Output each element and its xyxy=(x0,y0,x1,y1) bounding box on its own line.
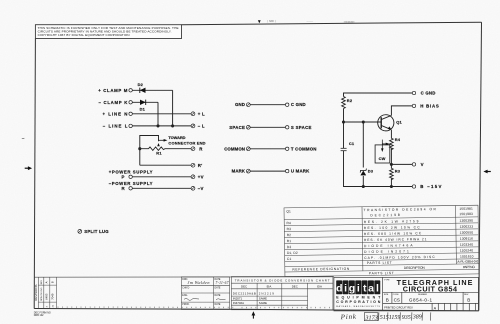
svg-text:CODE: CODE xyxy=(393,294,400,296)
revisions block xyxy=(38,277,56,308)
svg-text:3173: 3173 xyxy=(364,314,377,321)
svg-text:REV.: REV. xyxy=(464,294,469,296)
svg-text:1103340: 1103340 xyxy=(460,243,473,247)
terminal P (+POWER SUPPLY) xyxy=(109,170,153,180)
signature block grid xyxy=(181,277,229,310)
svg-text:| N3R |: | N3R | xyxy=(267,20,276,23)
wire left rail R2 to C1 xyxy=(342,109,345,149)
svg-text:R2: R2 xyxy=(287,233,292,237)
svg-text:DEC2219A&B: DEC2219A&B xyxy=(233,292,256,296)
terminal L (-LINE) xyxy=(103,123,133,128)
node S SPACE xyxy=(286,125,312,130)
company name xyxy=(336,296,381,309)
svg-text:935: 935 xyxy=(402,315,411,321)
capacitor C1 xyxy=(341,141,355,151)
svg-text:Q1: Q1 xyxy=(286,210,291,214)
svg-text:1001610: 1001610 xyxy=(460,254,474,258)
svg-text:a: a xyxy=(368,283,374,295)
wire SPACE to S SPACE xyxy=(250,126,285,128)
node H BIAS xyxy=(412,103,439,108)
printed circuit rev row xyxy=(384,306,437,311)
SECTION: middle column xyxy=(224,102,316,173)
svg-text:IN2071: IN2071 xyxy=(233,296,243,300)
SECTION: title block xyxy=(334,277,479,321)
SECTION: parts table xyxy=(284,205,479,276)
svg-text:G854-0-1: G854-0-1 xyxy=(409,298,433,303)
svg-text:PART NO.: PART NO. xyxy=(463,265,476,269)
svg-text:–V: –V xyxy=(198,186,204,191)
svg-text:R′: R′ xyxy=(198,163,203,168)
terminal M (+CLAMP) xyxy=(98,88,132,93)
svg-text:SAME: SAME xyxy=(259,301,267,305)
svg-text:+V: +V xyxy=(198,174,204,179)
sheet top border xyxy=(182,22,482,25)
svg-text:R2: R2 xyxy=(347,98,353,103)
wire R to -V xyxy=(132,187,191,189)
svg-text:Q1: Q1 xyxy=(396,120,402,125)
node COMMON xyxy=(224,146,250,151)
left margin dash xyxy=(22,137,25,139)
svg-text:SPLIT LUG: SPLIT LUG xyxy=(84,229,109,234)
svg-text:– L: – L xyxy=(198,124,205,129)
drawing title xyxy=(384,278,473,294)
svg-text:Pink: Pink xyxy=(340,313,357,322)
svg-text:R4: R4 xyxy=(286,221,291,225)
svg-text:1501983: 1501983 xyxy=(459,212,473,216)
svg-text:IN4746A: IN4746A xyxy=(233,301,244,305)
svg-text:P: P xyxy=(122,174,125,179)
node GND xyxy=(235,102,250,107)
node SPACE xyxy=(229,125,250,130)
svg-text:CIRCUIT G854: CIRCUIT G854 xyxy=(403,285,457,294)
title block grid xyxy=(334,277,479,311)
node MARK xyxy=(232,169,251,174)
svg-text:DEC: DEC xyxy=(292,284,298,288)
svg-text:RES. 100 2W 10% CC: RES. 100 2W 10% CC xyxy=(364,225,421,230)
SECTION: margin marks xyxy=(22,20,491,173)
SECTION: bottom blocks xyxy=(34,277,334,319)
node R' xyxy=(191,163,202,168)
svg-text:Jm Walden: Jm Walden xyxy=(188,280,210,285)
svg-text:t: t xyxy=(363,283,367,295)
svg-text:A: A xyxy=(434,307,437,311)
size code number rev row xyxy=(384,294,471,303)
svg-text:CONNECTOR END: CONNECTOR END xyxy=(168,140,205,145)
handwritten signatures xyxy=(184,280,229,300)
node +V xyxy=(191,174,204,179)
sheet left border xyxy=(34,39,35,309)
handwritten boxed 3173 xyxy=(364,313,378,322)
svg-text:+ L: + L xyxy=(198,111,205,116)
svg-text:389: 389 xyxy=(412,315,422,321)
parts list rows xyxy=(286,207,478,277)
label TOWARD CONNECTOR END with arrow xyxy=(159,135,206,145)
svg-text:B –15V: B –15V xyxy=(420,184,442,189)
conversion chart text xyxy=(233,278,330,305)
SECTION: left connector column xyxy=(78,82,206,234)
wire collector to H BIAS xyxy=(391,106,412,116)
svg-text:2N2219: 2N2219 xyxy=(259,292,274,296)
resistor R4 (pot) xyxy=(382,137,400,149)
svg-text:REFERENCE DESIGNATION: REFERENCE DESIGNATION xyxy=(292,267,350,272)
registration arrow (right, left-pointing) xyxy=(483,170,490,174)
svg-text:COMMON: COMMON xyxy=(224,146,245,151)
svg-text:1105240: 1105240 xyxy=(460,248,473,252)
svg-text:R1: R1 xyxy=(156,150,162,155)
wire top rail xyxy=(344,93,413,97)
svg-text:RES. 2K 1W #2759: RES. 2K 1W #2759 xyxy=(364,219,419,224)
svg-text:A: A xyxy=(45,281,49,283)
svg-text:NUMBER: NUMBER xyxy=(418,294,428,296)
svg-text:A-PL-G854-0-0: A-PL-G854-0-0 xyxy=(457,259,478,263)
svg-text:1159: 1159 xyxy=(389,315,401,321)
svg-text:DEC: DEC xyxy=(241,284,247,288)
node +L xyxy=(191,111,205,116)
svg-text:PARTS LIST: PARTS LIST xyxy=(367,261,392,265)
wire +LINE N to +L xyxy=(132,113,191,115)
svg-text:i: i xyxy=(357,283,360,295)
svg-text:B: B xyxy=(467,298,470,303)
wire P to +V xyxy=(132,176,191,178)
svg-text:D1, D2: D1, D2 xyxy=(287,251,298,255)
node R xyxy=(191,146,203,151)
revisions block labels xyxy=(34,280,54,308)
bottom border tick marks xyxy=(58,307,329,309)
svg-text:RES. 680 1/4W 10% CC: RES. 680 1/4W 10% CC xyxy=(364,231,422,236)
resistor R2 xyxy=(342,97,353,109)
svg-text:V: V xyxy=(421,162,424,167)
diode D2 xyxy=(132,82,172,93)
svg-text:EIA: EIA xyxy=(317,284,322,288)
svg-text:PROD.: PROD. xyxy=(182,304,190,306)
svg-text:ENG.: ENG. xyxy=(182,295,188,297)
svg-text:1309116: 1309116 xyxy=(460,237,473,241)
svg-text:REVISIONS: REVISIONS xyxy=(34,284,38,300)
wire R4 to V node xyxy=(390,149,393,169)
wire MARK to U MARK xyxy=(250,170,285,172)
diode D3 (zener) xyxy=(360,169,374,176)
svg-text:REV: REV xyxy=(41,280,43,285)
svg-text:d: d xyxy=(336,283,342,295)
svg-text:SPIN CHG NO: SPIN CHG NO xyxy=(41,287,43,301)
node C GND xyxy=(286,102,306,107)
svg-text:DESCRIPTION: DESCRIPTION xyxy=(404,266,426,270)
wire D1 to -L node xyxy=(156,102,159,127)
svg-text:DATE: DATE xyxy=(215,294,221,297)
svg-text:PARTS LIST: PARTS LIST xyxy=(369,271,394,275)
form number text xyxy=(34,311,51,317)
svg-text:C1: C1 xyxy=(287,257,292,261)
transistor Q1 xyxy=(378,115,403,131)
node V xyxy=(412,162,423,167)
resistor R3 xyxy=(390,168,401,179)
node B -15V xyxy=(412,184,441,189)
svg-text:– LINE L: – LINE L xyxy=(103,123,128,128)
resistor R1 (pot) xyxy=(140,143,191,155)
svg-text:SAME: SAME xyxy=(259,296,267,300)
wire R3 to bottom rail xyxy=(390,179,393,189)
svg-text:R1: R1 xyxy=(287,239,292,243)
wire base rail xyxy=(344,120,382,123)
svg-text:COPYRIGHT 1967 BY DIGITAL EQUI: COPYRIGHT 1967 BY DIGITAL EQUIPMENT CORP… xyxy=(38,33,130,37)
CW direction box xyxy=(375,140,390,163)
wire D3 branch xyxy=(362,122,365,188)
label split lug xyxy=(78,229,109,234)
svg-text:B: B xyxy=(50,281,54,283)
svg-text:SPACE: SPACE xyxy=(229,125,245,130)
svg-text:DRB 102: DRB 102 xyxy=(34,314,44,317)
svg-text:1501981: 1501981 xyxy=(459,207,473,211)
svg-text:D3: D3 xyxy=(287,245,292,249)
wire COMMON to T COMMON xyxy=(250,148,285,150)
svg-text:B: B xyxy=(386,298,389,303)
svg-text:515: 515 xyxy=(380,315,389,321)
wire -LINE L to -L xyxy=(132,125,191,127)
svg-text:1500A A03: 1500A A03 xyxy=(344,20,356,23)
svg-text:1300390: 1300390 xyxy=(459,219,473,223)
svg-text:CS: CS xyxy=(394,298,400,303)
node C GND (circuit) xyxy=(412,91,435,96)
wire R' xyxy=(140,164,191,166)
sheet bottom border xyxy=(34,309,479,311)
svg-text:7-11-67: 7-11-67 xyxy=(216,281,229,285)
svg-text:D1: D1 xyxy=(140,106,146,111)
svg-text:C1: C1 xyxy=(349,141,355,146)
svg-text:H BIAS: H BIAS xyxy=(420,103,439,108)
svg-text:MAYNARD, MASSACHUSETTS: MAYNARD, MASSACHUSETTS xyxy=(336,305,380,308)
terminal K (-CLAMP) xyxy=(99,100,133,105)
registration arrow (bottom, up) xyxy=(252,311,256,318)
svg-text:6495: 6495 xyxy=(45,293,49,300)
diode D1 xyxy=(132,100,158,112)
registration arrow (left, right-pointing) xyxy=(25,166,32,170)
svg-text:7049: 7049 xyxy=(50,293,54,300)
svg-text:U MARK: U MARK xyxy=(291,169,310,174)
svg-text:CHK’D: CHK’D xyxy=(182,287,189,289)
sheet right border xyxy=(479,22,482,310)
svg-text:DATE: DATE xyxy=(215,303,221,306)
node -V xyxy=(191,186,204,191)
registration mark (top, down triangle) xyxy=(258,20,261,23)
svg-text:DATE: DATE xyxy=(215,286,221,289)
svg-text:C GND: C GND xyxy=(291,102,306,107)
svg-text:———: ——— xyxy=(307,21,314,23)
svg-text:R4: R4 xyxy=(395,137,401,142)
svg-text:PRINTED CIRCUIT REV.: PRINTED CIRCUIT REV. xyxy=(384,306,413,310)
bottom strip top line xyxy=(35,276,334,278)
svg-text:MARK: MARK xyxy=(232,169,246,174)
SECTION: notice box xyxy=(35,25,181,39)
SECTION: border frame xyxy=(34,22,481,311)
conversion chart grid xyxy=(231,277,333,310)
wire R1 feedback loop xyxy=(138,136,158,166)
wire D2 to -L node xyxy=(171,90,174,127)
svg-text:T COMMON: T COMMON xyxy=(291,146,317,151)
svg-text:TRANSISTOR & DIODE CONVERSION: TRANSISTOR & DIODE CONVERSION CHART xyxy=(235,278,330,282)
svg-text:CW: CW xyxy=(379,156,386,161)
wire V branch xyxy=(391,163,412,165)
svg-text:EIA: EIA xyxy=(267,284,272,288)
node T COMMON xyxy=(286,146,317,151)
parts list table grid xyxy=(284,205,479,276)
svg-text:TYPE: TYPE xyxy=(384,279,390,281)
svg-text:D2: D2 xyxy=(138,82,144,87)
svg-text:D3: D3 xyxy=(368,169,374,174)
node -L xyxy=(191,124,205,129)
svg-text:+POWER SUPPLY: +POWER SUPPLY xyxy=(109,170,153,175)
svg-text:GND: GND xyxy=(235,102,245,107)
svg-text:1300233: 1300233 xyxy=(460,225,474,229)
wire emitter to R4 xyxy=(390,130,392,139)
handwritten number cells xyxy=(379,312,431,321)
wire GND to C GND xyxy=(250,104,285,106)
signature block labels xyxy=(182,278,221,306)
svg-text:1300550: 1300550 xyxy=(460,231,474,235)
node U MARK xyxy=(286,169,311,174)
SECTION: right circuit xyxy=(341,91,442,190)
svg-text:g: g xyxy=(349,283,355,295)
svg-text:C O R P O R A T I O N: C O R P O R A T I O N xyxy=(336,300,380,304)
digital logo xyxy=(336,280,380,294)
svg-text:R3: R3 xyxy=(287,227,292,231)
svg-text:SIZE: SIZE xyxy=(384,294,389,296)
svg-text:l: l xyxy=(376,283,379,295)
svg-text:+ CLAMP M: + CLAMP M xyxy=(98,88,128,93)
terminal R (-POWER SUPPLY) xyxy=(109,181,153,191)
tiny top margin texts xyxy=(267,20,355,23)
svg-text:C GND: C GND xyxy=(421,91,436,96)
svg-text:–POWER SUPPLY: –POWER SUPPLY xyxy=(109,181,153,186)
svg-text:i: i xyxy=(344,283,347,295)
terminal N (+LINE) xyxy=(103,111,133,116)
svg-text:R3: R3 xyxy=(395,169,401,174)
svg-text:– CLAMP K: – CLAMP K xyxy=(99,100,129,105)
wire left rail C1 to bottom xyxy=(344,151,413,187)
svg-text:+ LINE N: + LINE N xyxy=(103,111,128,116)
svg-text:S SPACE: S SPACE xyxy=(291,125,312,130)
